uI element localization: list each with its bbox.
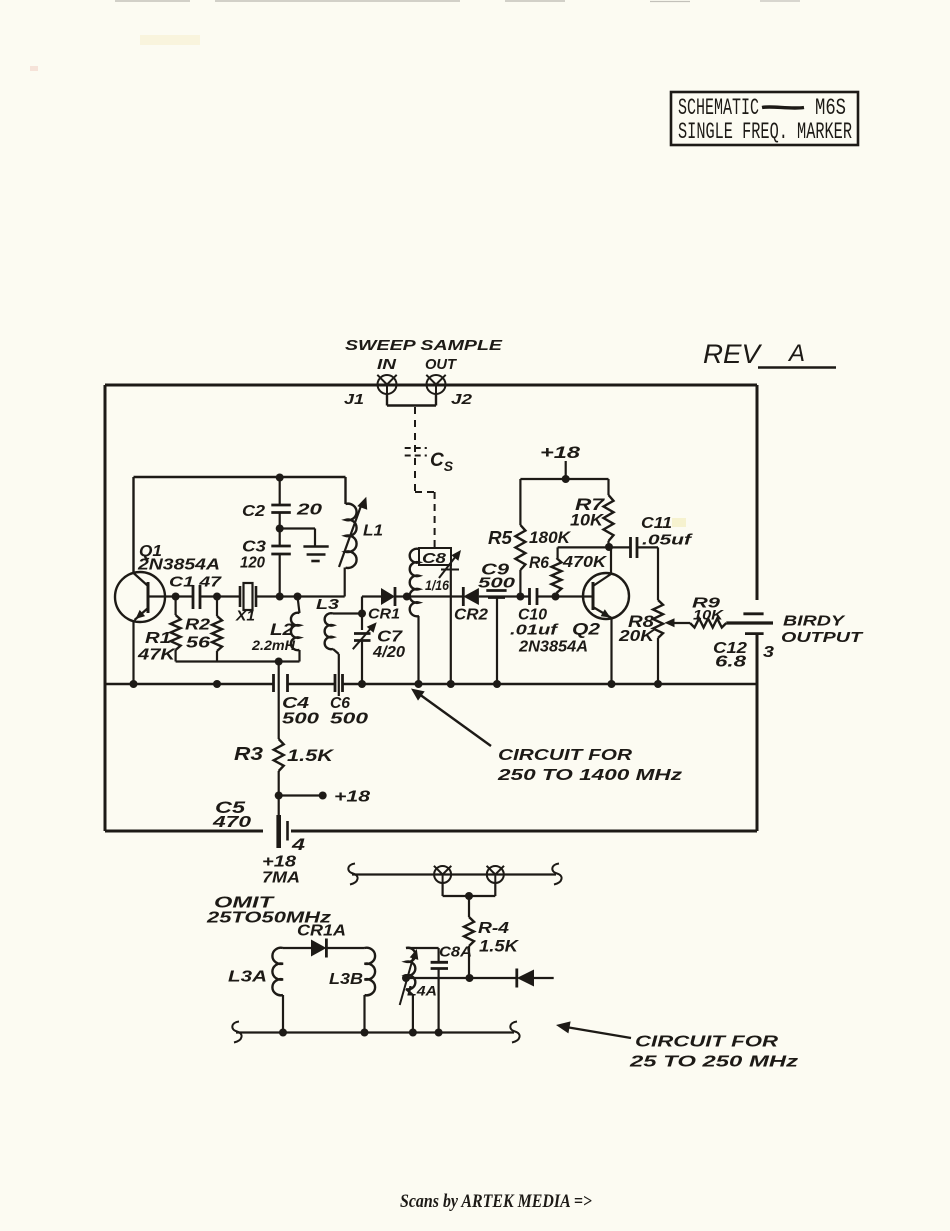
label C9 value (478, 575, 516, 592)
label R5 (488, 528, 513, 548)
label 25 TO 250 MHz (629, 1054, 798, 1071)
wire R3 to C5 (278, 771, 280, 796)
node +18 feed terminal (319, 792, 327, 800)
svg-text:L3: L3 (316, 596, 340, 613)
wire R9 to C12 (726, 621, 773, 624)
node C8 bus junction (447, 680, 455, 688)
label X1 (235, 608, 255, 625)
C8 tuning arrow (439, 550, 461, 578)
wire lower top rail (352, 873, 556, 875)
svg-text:R6: R6 (529, 553, 549, 572)
label C8A (439, 944, 472, 961)
label Q1 (139, 543, 162, 560)
wire lower bottom rail (236, 1031, 514, 1033)
label R1 (145, 630, 171, 647)
svg-text:.01uf: .01uf (510, 622, 560, 639)
svg-text:4/20: 4/20 (372, 644, 405, 661)
label C4 value (282, 711, 319, 728)
wire C8 right to bus (450, 565, 452, 684)
node R5 bottom junction (516, 593, 524, 601)
label CR1A (297, 923, 346, 940)
svg-text:M6S: M6S (815, 95, 846, 121)
svg-text:R2: R2 (185, 617, 210, 634)
capacitor C8 box (419, 548, 451, 565)
svg-text:A: A (787, 340, 805, 367)
svg-text:CR2: CR2 (454, 607, 488, 624)
label CR1 (368, 606, 400, 623)
node R6 bottom junction (552, 593, 560, 601)
capacitor Cs (405, 445, 427, 493)
node C8A bus junction (435, 1029, 443, 1037)
R8 wiper arrow (665, 618, 691, 627)
node R4 top junction (465, 892, 473, 900)
capacitor C2 (271, 505, 291, 513)
svg-text:500: 500 (282, 711, 319, 728)
wire dashed stray coupling (414, 407, 416, 445)
resistor R7 (604, 479, 614, 547)
svg-text:Scans by ARTEK MEDIA =>: Scans by ARTEK MEDIA => (400, 1191, 592, 1212)
label C9 (481, 562, 509, 579)
break mark right top rail (552, 864, 561, 885)
label C8 value (425, 577, 449, 593)
label R6 (529, 553, 549, 572)
resistor R1 (171, 597, 181, 662)
connector J2 (426, 375, 445, 394)
label L3A (228, 969, 267, 986)
footer scan credit (400, 1191, 592, 1212)
node L3B bus junction (361, 1029, 369, 1037)
wire lower diode run (406, 977, 517, 979)
power +18 mid (334, 789, 370, 806)
wire C3 to base run (279, 554, 281, 597)
wire C4 node to R3 (278, 662, 280, 740)
svg-text:Q2: Q2 (572, 620, 601, 639)
node L3A bus junction (279, 1029, 287, 1037)
inductor L3A (272, 948, 283, 1033)
resistor R-4 (464, 896, 474, 978)
label R3 (234, 744, 263, 764)
label C6 (330, 695, 350, 712)
capacitor C11 (631, 537, 638, 558)
label C7 (377, 629, 403, 646)
svg-text:L4A: L4A (407, 983, 437, 999)
svg-text:2.2mH: 2.2mH (251, 637, 296, 653)
node R4 wire junction (466, 974, 474, 982)
wire CR1 to tank tap (396, 595, 407, 597)
resistor R3 (274, 739, 284, 771)
label C12 value (715, 654, 746, 671)
L1 tuning arrow (339, 497, 367, 567)
label C6 value (330, 711, 368, 728)
node tank coil bus junction (415, 680, 423, 688)
wire inner loop right (L1 top feed) (344, 477, 346, 504)
bus wire right segment (343, 683, 758, 686)
label R1 value (137, 647, 177, 664)
diode D lower (517, 969, 534, 988)
connector J1 (377, 375, 396, 394)
svg-text:56: 56 (186, 635, 210, 652)
svg-text:C8A: C8A (439, 944, 472, 961)
node C3 branch junction (276, 593, 284, 601)
wire Q1 emitter to bus (132, 620, 134, 684)
label R9 (692, 595, 721, 612)
label C7 value (372, 644, 405, 661)
diode CR2 (463, 587, 479, 606)
label R3 value (287, 746, 335, 765)
revision note REV A (703, 339, 836, 369)
wire +18 rail (520, 478, 608, 480)
svg-text:20K: 20K (618, 628, 656, 645)
label Q2 (572, 620, 601, 639)
label J2 (451, 391, 473, 408)
power +18 top (540, 443, 581, 479)
label L2 value (251, 637, 296, 653)
svg-text:+18: +18 (334, 789, 370, 806)
label C11 (641, 515, 672, 532)
wire inner loop left (Q1 collector feed) (132, 477, 134, 573)
label BIRDY (783, 613, 847, 630)
capacitor C3 (271, 546, 291, 554)
resistor R2 (212, 597, 222, 662)
label 7MA (262, 870, 300, 887)
label Cs (430, 450, 454, 474)
resistor R8 potentiometer (653, 600, 663, 684)
transistor Q2 (583, 573, 629, 619)
callout arrow 250 to 1400 (411, 689, 491, 747)
node R1 tap (172, 593, 180, 601)
label R-4 (478, 920, 509, 937)
svg-text:REV: REV (703, 339, 763, 369)
inductor L2 (291, 597, 300, 662)
title text line 1 (678, 95, 846, 121)
bus wire middle segment (288, 683, 336, 686)
wire Q2 collector (610, 547, 612, 574)
wire top to C2 (279, 478, 281, 506)
label R7 (575, 495, 606, 514)
label Q1 part number (137, 557, 220, 574)
svg-text:470K: 470K (562, 554, 608, 571)
label 25TO50MHz (206, 910, 331, 927)
label R7 value (570, 511, 605, 530)
svg-text:CIRCUIT FOR: CIRCUIT FOR (498, 747, 633, 764)
break mark left top rail (348, 864, 357, 885)
connector J2A (487, 866, 504, 883)
svg-text:10K: 10K (570, 511, 605, 530)
label R8 (628, 612, 655, 631)
label L1 (363, 523, 383, 540)
node L3 C7 junction (358, 610, 366, 618)
wire C11 to R8 top (637, 547, 658, 600)
svg-text:SCHEMATIC: SCHEMATIC (678, 95, 759, 121)
capacitor C6 (335, 674, 343, 692)
wire J1 J2 coupling loop (387, 394, 436, 406)
label C5 (215, 798, 246, 817)
wire R7 node to C11 (609, 546, 630, 548)
wire Q2 emitter to bus (610, 618, 612, 684)
inductor L4A (406, 948, 415, 1033)
node C4 drop junction (275, 658, 283, 666)
node Q1 emitter bus junction (130, 680, 138, 688)
resistor R9 (690, 619, 726, 628)
resistor R6 (552, 547, 610, 596)
shield box bottom edge left of C5 (105, 830, 263, 833)
svg-text:J1: J1 (344, 391, 364, 408)
svg-text:SINGLE FREQ. MARKER: SINGLE FREQ. MARKER (678, 119, 852, 145)
label CR2 (454, 607, 488, 624)
svg-text:C1 47: C1 47 (169, 574, 222, 591)
wire inner loop top (134, 476, 346, 478)
svg-text:C3: C3 (242, 539, 266, 556)
node C7 bus junction (358, 680, 366, 688)
svg-text:180K: 180K (529, 528, 572, 547)
bus wire left segment (105, 683, 274, 686)
svg-text:7MA: 7MA (262, 870, 300, 887)
label C3 value (240, 555, 265, 572)
node R7 C11 junction (605, 543, 613, 551)
svg-text:BIRDY: BIRDY (783, 613, 847, 630)
svg-text:6.8: 6.8 (715, 654, 746, 671)
svg-text:OUT: OUT (425, 356, 458, 373)
shield box right edge above C12 (756, 385, 759, 600)
svg-text:250 TO 1400 MHz: 250 TO 1400 MHz (497, 767, 682, 784)
label C2 value (296, 502, 323, 519)
diode CR1A (311, 939, 326, 958)
shield box right edge below C12 (756, 635, 759, 832)
power +18 bottom (262, 854, 296, 871)
svg-text:C11: C11 (641, 515, 672, 532)
node +18 junction (562, 475, 570, 483)
svg-text:3: 3 (763, 644, 774, 661)
wire X1 to L1 corner (256, 595, 345, 597)
wire L3A CR1A L3B (283, 947, 365, 949)
svg-text:500: 500 (478, 575, 516, 592)
svg-text:X1: X1 (235, 608, 255, 625)
svg-text:C6: C6 (330, 695, 350, 712)
label R8 value (618, 628, 656, 645)
capacitor C10 (530, 588, 538, 605)
label IN (377, 356, 397, 373)
capacitor C7 variable (353, 614, 377, 685)
label R9 value (693, 607, 724, 623)
svg-text:CR1A: CR1A (297, 923, 346, 940)
title box (671, 92, 858, 145)
wire Q1 base to C1 (148, 595, 193, 597)
wire L3 bottom through C6 (333, 649, 339, 696)
label C2 (242, 503, 265, 520)
svg-text:25 TO 250 MHz: 25 TO 250 MHz (629, 1054, 798, 1071)
label R6 value (562, 554, 608, 571)
label R2 (185, 617, 210, 634)
capacitor C8A (406, 948, 448, 1033)
node R3 C5 junction (275, 792, 283, 800)
label R5 value (529, 528, 572, 547)
inductor L3 (325, 613, 333, 649)
label Q2 part number (518, 639, 588, 656)
wire CR2 to C10 (479, 595, 530, 597)
svg-text:10K: 10K (693, 607, 724, 623)
svg-text:OUTPUT: OUTPUT (781, 629, 864, 646)
wire dashed jog to C8 (415, 492, 435, 548)
node C9 bus junction (493, 680, 501, 688)
label C12 (713, 640, 747, 657)
svg-text:SWEEP SAMPLE: SWEEP SAMPLE (345, 337, 503, 354)
capacitor C12 feedthrough (743, 614, 763, 634)
ground (303, 547, 328, 562)
wire diode right stub (534, 977, 554, 979)
pin 4 (291, 835, 306, 854)
break mark right bottom rail (510, 1022, 519, 1043)
capacitor C9 feedthrough (486, 591, 506, 685)
label L3 (316, 596, 340, 613)
label C11 value (642, 532, 694, 549)
node C2 C3 junction (276, 525, 284, 533)
label 250 TO 1400 MHz (497, 767, 682, 784)
svg-text:C2: C2 (242, 503, 265, 520)
label SWEEP SAMPLE (345, 337, 503, 354)
svg-text:4: 4 (291, 835, 306, 854)
label C4 (282, 695, 309, 712)
label C10 value (510, 622, 560, 639)
svg-text:2N3854A: 2N3854A (518, 639, 588, 656)
crystal X1 (240, 583, 256, 610)
label OMIT (214, 895, 275, 912)
svg-text:R3: R3 (234, 744, 263, 764)
wire tank to CR2 (407, 595, 464, 597)
svg-text:1.5K: 1.5K (479, 937, 520, 956)
node L2 top junction (294, 593, 302, 601)
label L4A (407, 983, 437, 999)
wire C2 to C3 (279, 513, 281, 547)
svg-text:R5: R5 (488, 528, 513, 548)
wire +18 stub (279, 794, 323, 796)
capacitor C1 (193, 585, 200, 609)
svg-text:R-4: R-4 (478, 920, 509, 937)
wire C1 to crystal X1 (200, 595, 240, 597)
svg-text:CS: CS (430, 450, 454, 474)
label CIRCUIT FOR (upper) (498, 747, 633, 764)
svg-text:1.5K: 1.5K (287, 746, 335, 765)
L4A tuning arrow (400, 949, 419, 1005)
label J1 (344, 391, 364, 408)
node R8 bus junction (654, 680, 662, 688)
wire R1 R2 L2 bottom link (176, 660, 300, 662)
node R2 tap (213, 593, 221, 601)
svg-text:1/16: 1/16 (425, 577, 449, 593)
capacitor C5 feedthrough (279, 796, 288, 849)
inductor tank coil (410, 549, 419, 684)
diode CR1 (381, 587, 395, 606)
break mark left bottom rail (232, 1022, 241, 1043)
svg-text:20: 20 (296, 502, 323, 519)
label L3B (329, 971, 363, 988)
label C3 (242, 539, 266, 556)
label R2 value (186, 635, 210, 652)
svg-text:J2: J2 (451, 391, 473, 408)
svg-text:R1: R1 (145, 630, 171, 647)
inductor L3B (365, 948, 376, 1033)
label C10 (518, 607, 547, 624)
wire C10 to Q2 base (537, 595, 593, 597)
svg-text:470: 470 (212, 814, 252, 831)
svg-text:C7: C7 (377, 629, 403, 646)
svg-text:L3B: L3B (329, 971, 363, 988)
svg-text:L1: L1 (363, 523, 383, 540)
svg-text:120: 120 (240, 555, 265, 572)
label R-4 value (479, 937, 520, 956)
node Q2 emitter bus junction (608, 680, 616, 688)
svg-text:CR1: CR1 (368, 606, 400, 623)
svg-text:IN: IN (377, 356, 397, 373)
label OUTPUT (781, 629, 864, 646)
shield box bottom edge right of C5 (291, 830, 757, 833)
label L2 (270, 620, 295, 639)
title text line 2 (678, 119, 852, 145)
transistor Q1 (115, 572, 165, 622)
svg-text:C8: C8 (422, 550, 447, 567)
svg-text:47K: 47K (137, 647, 177, 664)
node bus R2 junction (213, 680, 221, 688)
label CIRCUIT FOR (lower) (635, 1034, 779, 1051)
svg-text:500: 500 (330, 711, 368, 728)
wire C7 node up to CR1 (362, 597, 381, 614)
shield box top edge (105, 384, 757, 387)
label C5 value (212, 814, 252, 831)
label OUT (425, 356, 458, 373)
scan artifact top edge smudges (30, 1, 800, 527)
pin 3 (763, 644, 774, 661)
node tank tap (403, 593, 411, 601)
callout arrow 25 to 250 (556, 1021, 631, 1038)
label C1 47 (169, 574, 222, 591)
svg-text:+18: +18 (262, 854, 296, 871)
svg-text:L3A: L3A (228, 969, 267, 986)
wire L3 top to C7 node (333, 612, 362, 614)
resistor R5 (515, 479, 525, 597)
label C8 (422, 550, 447, 567)
svg-text:+18: +18 (540, 443, 581, 462)
inductor L1 (346, 504, 357, 568)
capacitor C4 (274, 674, 288, 692)
svg-text:C4: C4 (282, 695, 309, 712)
connector J1A (434, 866, 451, 883)
node L4A bus junction (409, 1029, 417, 1037)
node C2 top junction (276, 474, 284, 482)
svg-text:2N3854A: 2N3854A (137, 557, 220, 574)
shield box left edge (104, 385, 107, 831)
svg-text:CIRCUIT FOR: CIRCUIT FOR (635, 1034, 779, 1051)
node L4A tap (402, 974, 410, 982)
wire to ground symbol (280, 529, 315, 547)
wire connector loop lower (443, 883, 496, 896)
wire L1 bottom (344, 568, 346, 597)
svg-text:.05uf: .05uf (642, 532, 694, 549)
